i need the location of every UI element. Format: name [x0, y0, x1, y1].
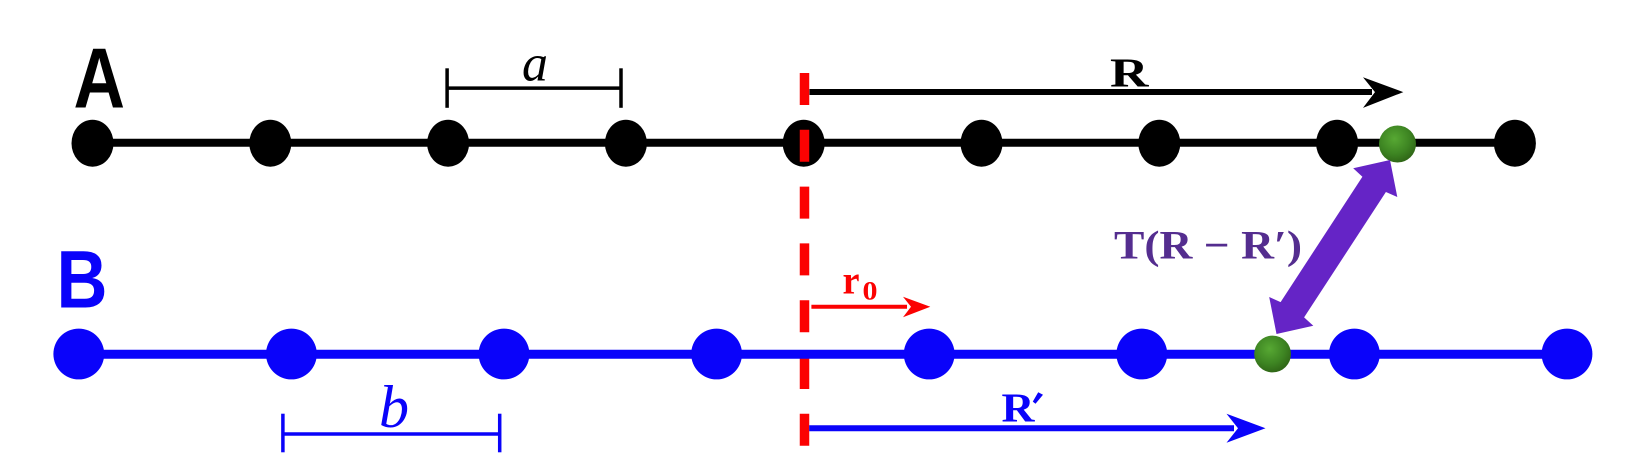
arrow r0: [811, 305, 907, 309]
svg-text:T(R − R′): T(R − R′): [1114, 223, 1302, 268]
chain B atom 7: [1329, 329, 1380, 380]
chain B atom 3: [479, 329, 530, 380]
chain A atom 4: [605, 120, 647, 167]
svg-text:0: 0: [863, 276, 878, 306]
green orbital site on chain B: [1254, 336, 1291, 373]
chain B atom 6: [1116, 329, 1167, 380]
chain B atom 2: [266, 329, 317, 380]
svg-text:B: B: [57, 235, 108, 326]
chain A atom 8: [1316, 120, 1358, 167]
chain B atom 8: [1542, 329, 1593, 380]
chain A atom 3: [427, 120, 469, 167]
origin dashed line: [800, 73, 810, 446]
chain B wire: [79, 350, 1567, 359]
svg-text:a: a: [522, 36, 548, 93]
chain A atom 9: [1494, 120, 1536, 167]
svg-text:R: R: [1110, 50, 1150, 96]
chain A atom 6: [961, 120, 1003, 167]
svg-text:r: r: [843, 258, 860, 303]
chain A atom 2: [249, 120, 291, 167]
arrow R': [809, 425, 1234, 431]
lattice constant a bracket: [447, 68, 621, 108]
chain B atom 1: [53, 329, 104, 380]
svg-text:A: A: [74, 32, 126, 127]
chain B atom 4: [691, 329, 742, 380]
svg-text:b: b: [379, 374, 409, 440]
tunneling double arrow T: [1269, 160, 1397, 334]
lattice constant b bracket: [283, 414, 500, 453]
chain A atom 1: [72, 120, 114, 167]
chain B atom 5: [904, 329, 955, 380]
arrow R: [810, 89, 1373, 95]
svg-text:R: R: [1002, 385, 1036, 431]
chain A atom 5: [783, 120, 825, 167]
green orbital site on chain A: [1379, 126, 1416, 163]
chain A wire: [93, 139, 1515, 147]
chain A atom 7: [1138, 120, 1180, 167]
